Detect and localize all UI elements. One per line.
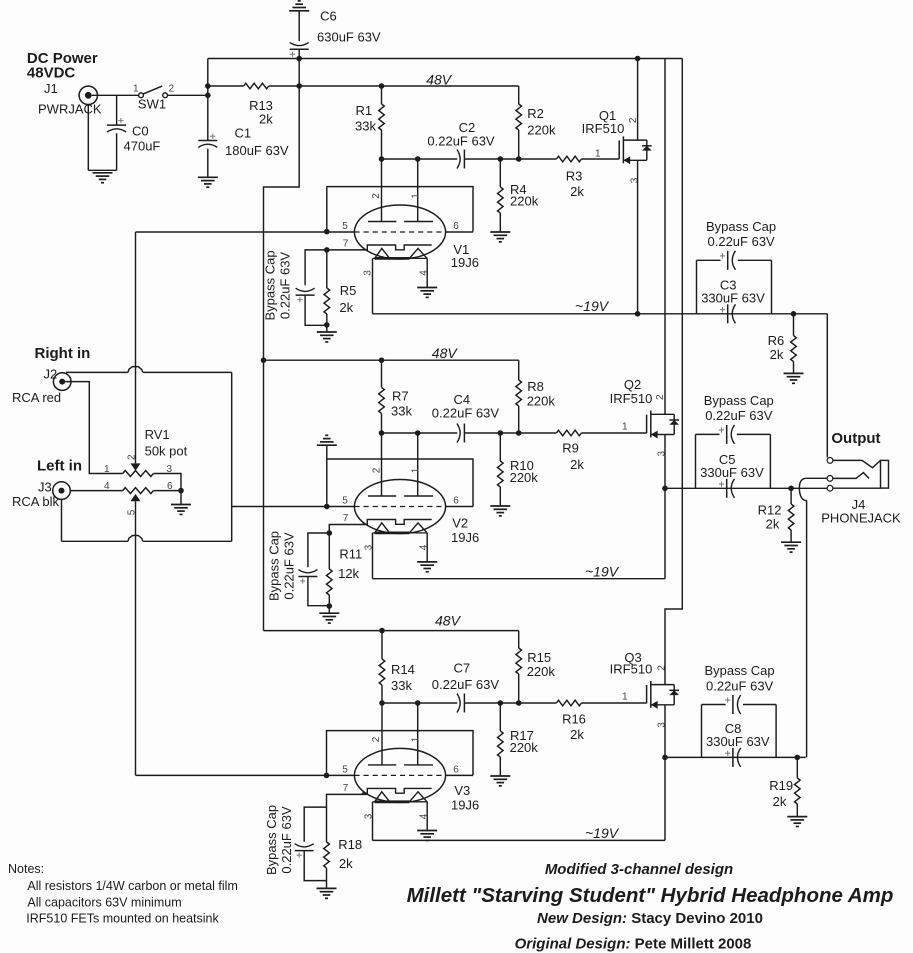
connector J4 ring contact — [827, 476, 833, 482]
ground at R19 — [787, 816, 807, 818]
svg-text:0.22uF 63V: 0.22uF 63V — [279, 806, 294, 874]
svg-text:7: 7 — [343, 783, 349, 794]
svg-text:19J6: 19J6 — [451, 798, 479, 813]
svg-text:C0: C0 — [132, 124, 149, 139]
svg-text:IRF510 FETs mounted on heatsin: IRF510 FETs mounted on heatsink — [26, 912, 219, 926]
svg-text:4: 4 — [104, 481, 110, 492]
capacitor C1 180uF 63V — [198, 140, 217, 142]
svg-text:0.22uF 63V: 0.22uF 63V — [432, 406, 500, 421]
svg-text:0.22uF 63V: 0.22uF 63V — [432, 677, 500, 692]
transistor Q1 channel bar — [622, 136, 624, 163]
resistor R5 2k — [326, 250, 328, 288]
resistor R12 2k — [790, 488, 792, 504]
wire V2 pin7 heater — [329, 525, 367, 534]
wire V2 grid box tying pins 5,6 — [327, 459, 473, 507]
svg-text:2k: 2k — [339, 856, 353, 871]
svg-text:330uF 63V: 330uF 63V — [706, 734, 770, 749]
tube V1 cathode bottom bar — [373, 257, 428, 259]
svg-text:J3: J3 — [38, 480, 52, 495]
svg-text:V2: V2 — [452, 516, 468, 531]
resistor R13 2k — [244, 83, 269, 89]
svg-text:C7: C7 — [454, 661, 471, 676]
wire J1 to SW1 pin1 — [92, 94, 139, 96]
wire V1 grid box tying pins 5,6 — [327, 187, 473, 232]
ground above C6 (inverted) — [289, 10, 309, 12]
svg-text:PWRJACK: PWRJACK — [38, 102, 102, 117]
bypass cap 0.22uF 63V (C5 bank) — [696, 433, 720, 435]
ground at R5 — [317, 331, 337, 333]
capacitor C8 330uF 63V box — [701, 705, 703, 758]
svg-text:33k: 33k — [391, 404, 412, 419]
wire V3 pin4 to ground — [426, 802, 428, 831]
transistor Q2 drain stub — [651, 413, 674, 415]
ground at R18 — [317, 887, 337, 889]
svg-text:3: 3 — [630, 177, 641, 183]
svg-text:1: 1 — [133, 84, 139, 95]
svg-text:~19V: ~19V — [575, 298, 610, 314]
ground at V1 pin4 — [417, 287, 437, 289]
switch SW1 — [139, 93, 144, 98]
wire V1 plate leads pins 2,1 — [381, 159, 383, 222]
svg-text:5: 5 — [342, 221, 348, 232]
svg-text:2k: 2k — [773, 794, 787, 809]
svg-text:R14: R14 — [391, 662, 415, 677]
wire 48V rail (channel 1) — [208, 85, 244, 87]
tube V3 cathode bottom bar — [373, 801, 428, 803]
svg-text:2: 2 — [655, 394, 666, 400]
bypass cap 0.22uF 63V channel 1 — [305, 250, 327, 285]
ground at V2 pin4 — [417, 561, 437, 563]
wire J2 sleeve loop top — [66, 371, 128, 373]
wire 48V bus down to channels 2,3 — [264, 86, 300, 631]
tube V3 grid (dashed) — [354, 774, 445, 776]
tube V2 envelope — [354, 480, 445, 534]
resistor R4 220k — [499, 159, 501, 187]
capacitor C3 330uF 63V box — [696, 260, 698, 314]
wire SW1 pin2 to C1 node — [168, 94, 208, 96]
svg-text:IRF510: IRF510 — [582, 121, 625, 136]
svg-text:470uF: 470uF — [124, 138, 161, 153]
svg-text:R1: R1 — [356, 103, 373, 118]
svg-text:Left in: Left in — [37, 458, 82, 475]
resistor R10 220k — [499, 433, 501, 461]
wire grid node channel 3 — [382, 702, 457, 704]
capacitor C3 330uF 63V — [732, 304, 735, 323]
connector J4 tip contact — [827, 458, 833, 464]
svg-text:RCA blk: RCA blk — [12, 494, 59, 509]
svg-text:R19: R19 — [769, 778, 793, 793]
ground at R11 — [319, 612, 339, 614]
svg-text:IRF510: IRF510 — [610, 662, 653, 677]
transistor Q1 source arrow — [623, 156, 630, 164]
capacitor C4 0.22uF 63V — [457, 424, 460, 443]
svg-text:R5: R5 — [340, 283, 357, 298]
wire Q2 source down — [664, 435, 666, 579]
transistor Q2 source arrow — [651, 431, 658, 439]
svg-text:R15: R15 — [527, 650, 551, 665]
connector J4 sleeve contact — [827, 485, 833, 491]
svg-text:3: 3 — [657, 722, 668, 728]
svg-text:C6: C6 — [320, 9, 337, 24]
wire V1 pin4 to ground — [426, 258, 428, 287]
svg-text:2: 2 — [371, 736, 382, 742]
svg-text:R3: R3 — [566, 169, 583, 184]
svg-text:180uF 63V: 180uF 63V — [225, 143, 289, 158]
tube V1 plates — [368, 221, 396, 223]
wire channel 1 output ~19V line — [372, 259, 374, 314]
svg-text:SW1: SW1 — [138, 97, 166, 112]
wire V2 pin4 to ground — [426, 533, 428, 562]
svg-text:R11: R11 — [339, 547, 362, 562]
potentiometer RV1 upper wiper arrow — [131, 463, 141, 470]
svg-text:R12: R12 — [758, 503, 782, 518]
potentiometer RV1 lower section — [123, 488, 154, 494]
tube V3 heater bar — [362, 788, 432, 793]
wire R13 to R2 corner — [269, 85, 519, 87]
svg-text:R16: R16 — [562, 712, 586, 727]
svg-text:J2: J2 — [44, 367, 58, 382]
svg-text:7: 7 — [343, 513, 349, 524]
resistor R16 2k — [556, 700, 581, 706]
svg-text:220k: 220k — [527, 123, 556, 138]
wire C7 to R16 — [464, 702, 556, 704]
ground at J1/C0 — [93, 172, 113, 174]
wire 48V rail channel 2 — [264, 359, 519, 361]
wire V2 pin5 from jack sleeve loop — [232, 506, 355, 508]
wire Q2 drain up to top rail — [664, 59, 666, 415]
wire pot pins 3,6 to ground — [153, 474, 181, 491]
tube V2 plates — [368, 495, 396, 497]
svg-text:6: 6 — [453, 496, 459, 507]
svg-text:2k: 2k — [339, 300, 353, 315]
wire V1 pin5 input from pot wiper — [136, 231, 355, 233]
ground above V2 grid box — [317, 444, 337, 446]
svg-text:330uF 63V: 330uF 63V — [700, 465, 764, 480]
svg-text:Modified 3-channel design: Modified 3-channel design — [545, 861, 733, 878]
svg-text:RCA red: RCA red — [12, 390, 61, 405]
svg-text:0.22uF 63V: 0.22uF 63V — [708, 234, 776, 249]
svg-text:0.22uF 63V: 0.22uF 63V — [705, 408, 773, 423]
potentiometer RV1 50k upper section — [123, 471, 154, 477]
wire channel 2 ~19V line — [372, 533, 374, 579]
svg-text:Notes:: Notes: — [8, 862, 44, 876]
svg-text:12k: 12k — [338, 566, 359, 581]
svg-text:Bypass Cap: Bypass Cap — [263, 250, 278, 320]
svg-text:220k: 220k — [510, 470, 539, 485]
svg-text:4: 4 — [419, 544, 430, 550]
tube V1 heater bar — [362, 245, 432, 250]
tube V1 grid (dashed) — [354, 231, 445, 233]
transistor Q1 gate bar — [618, 140, 620, 158]
resistor R6 2k — [793, 314, 795, 336]
svg-text:5: 5 — [342, 496, 348, 507]
tube V3 plates — [368, 764, 396, 766]
svg-text:1: 1 — [622, 692, 628, 703]
tube V2 heater bar — [362, 520, 432, 525]
svg-text:1: 1 — [595, 149, 601, 160]
svg-text:220k: 220k — [510, 194, 539, 209]
svg-text:1: 1 — [411, 467, 422, 473]
transistor Q3 source arrow — [651, 701, 658, 709]
wire top 48V rail to MOSFET drains — [208, 58, 683, 60]
svg-text:48V: 48V — [432, 345, 459, 361]
bypass cap 0.22uF 63V channel 2 — [308, 533, 329, 567]
svg-text:2k: 2k — [570, 727, 584, 742]
ground at R12 — [781, 541, 801, 543]
wire J3 tip to pot pin4 — [70, 490, 122, 492]
svg-text:7: 7 — [343, 239, 349, 250]
wire pot wiper up to V1 — [135, 232, 137, 463]
resistor R8 220k — [518, 360, 520, 380]
svg-text:0.22uF 63V: 0.22uF 63V — [427, 133, 495, 148]
wire J1 ground return — [87, 105, 89, 171]
svg-text:19J6: 19J6 — [451, 255, 479, 270]
svg-text:33k: 33k — [355, 119, 376, 134]
svg-text:IRF510: IRF510 — [610, 391, 653, 406]
connector J4 plug body — [881, 460, 889, 488]
svg-text:2: 2 — [169, 84, 175, 95]
node 48V input vertical at C1 — [207, 59, 209, 141]
wire Q3 source down — [664, 705, 666, 841]
resistor R7 33k — [381, 360, 383, 387]
ground at R17 — [490, 775, 510, 777]
tube V2 cathode bottom bar — [373, 532, 428, 534]
transistor Q3 gate bar — [646, 685, 648, 703]
wire V3 pin7 heater — [327, 794, 368, 842]
svg-text:6: 6 — [453, 765, 459, 776]
svg-text:330uF 63V: 330uF 63V — [701, 290, 765, 305]
svg-text:3: 3 — [657, 450, 668, 456]
resistor R1 33k — [381, 86, 383, 104]
capacitor C5 330uF 63V box — [695, 434, 697, 488]
svg-text:630uF 63V: 630uF 63V — [317, 30, 381, 45]
ground at R10 — [490, 505, 510, 507]
tube V1 envelope — [354, 205, 445, 259]
wire channel 2 output line to jack sleeve — [665, 487, 828, 489]
svg-text:Bypass Cap: Bypass Cap — [706, 219, 776, 234]
transistor Q3 body diode — [673, 685, 675, 705]
wire Q1 drain to top rail — [637, 59, 639, 141]
svg-text:48VDC: 48VDC — [27, 65, 76, 82]
resistor R19 2k — [796, 757, 798, 778]
transistor Q3 source stub — [651, 704, 674, 706]
svg-text:RV1: RV1 — [145, 427, 170, 442]
wire C2 to R3 — [464, 158, 556, 160]
connector J1 PWRJACK — [79, 86, 97, 104]
svg-text:All resistors 1/4W carbon or m: All resistors 1/4W carbon or metal film — [27, 879, 237, 893]
svg-text:Right in: Right in — [35, 345, 91, 362]
wire channel 1 output to J4 tip — [826, 314, 828, 458]
svg-text:0.22uF 63V: 0.22uF 63V — [706, 678, 774, 693]
svg-text:Original Design: Pete Millett: Original Design: Pete Millett 2008 — [515, 936, 752, 953]
svg-text:Bypass Cap: Bypass Cap — [264, 805, 279, 875]
svg-text:R18: R18 — [338, 837, 362, 852]
svg-text:R7: R7 — [392, 389, 409, 404]
connector J3 RCA blk — [53, 482, 71, 500]
wire sleeve loop right side — [231, 372, 233, 541]
capacitor C5 330uF 63V — [731, 479, 734, 498]
tube V3 cathode triangles — [375, 792, 390, 802]
svg-text:50k pot: 50k pot — [145, 444, 188, 459]
wire V3 pin5 from pot lower wiper — [136, 774, 355, 776]
resistor R2 220k — [518, 86, 520, 104]
wire J2 tip to pot pin1 — [65, 382, 123, 474]
svg-text:Bypass Cap: Bypass Cap — [704, 393, 774, 408]
svg-text:4: 4 — [419, 813, 430, 819]
ground at pot — [171, 504, 191, 506]
svg-text:1: 1 — [410, 193, 421, 199]
tube V2 grid (dashed) — [354, 506, 445, 508]
capacitor C8 330uF 63V — [737, 748, 740, 767]
transistor Q2 source stub — [651, 434, 674, 436]
bypass cap 0.22uF 63V (C8 bank) — [702, 704, 726, 706]
ground at C1 — [198, 176, 218, 178]
svg-text:Q2: Q2 — [624, 377, 641, 392]
transistor Q3 drain stub — [651, 684, 674, 686]
connector J4 tip spring and plug — [833, 460, 881, 467]
transistor Q2 channel bar — [650, 411, 652, 438]
tube V2 cathode triangles — [375, 523, 390, 533]
connector J4 ring spring — [833, 473, 869, 479]
svg-text:0.22uF 63V: 0.22uF 63V — [278, 252, 293, 320]
wire channel 3 output line — [665, 756, 806, 758]
wire V2 plate leads pins 2,1 — [381, 433, 383, 496]
wire V1 pin7 heater — [327, 249, 368, 251]
bypass cap 0.22uF 63V channel 3 — [304, 807, 326, 842]
svg-text:All capacitors 63V minimum: All capacitors 63V minimum — [27, 896, 181, 910]
svg-text:R9: R9 — [562, 441, 579, 456]
wire J3 sleeve loop bottom — [61, 499, 63, 541]
potentiometer RV1 lower wiper arrow — [131, 494, 141, 501]
svg-text:~19V: ~19V — [585, 825, 620, 841]
capacitor C2 0.22uF 63V — [457, 150, 460, 169]
resistor R15 220k — [518, 631, 520, 648]
wire grid node channel 1 — [382, 158, 458, 160]
svg-text:48V: 48V — [426, 72, 453, 88]
wire C4 to R9 — [464, 432, 556, 434]
svg-text:J1: J1 — [44, 81, 58, 96]
svg-text:R8: R8 — [527, 379, 544, 394]
svg-text:Output: Output — [831, 430, 880, 447]
svg-text:220k: 220k — [510, 740, 539, 755]
ground at R4 — [490, 231, 510, 233]
ground at V3 pin4 — [417, 830, 437, 832]
wire V3 plate leads pins 2,1 — [381, 703, 383, 765]
svg-text:2: 2 — [657, 665, 668, 671]
svg-text:5: 5 — [342, 765, 348, 776]
wire 48V from top rail down to Q3 drain — [665, 59, 682, 685]
svg-text:220k: 220k — [527, 664, 556, 679]
transistor Q1 source stub — [623, 159, 646, 161]
svg-text:1: 1 — [410, 736, 421, 742]
ground at R6 — [784, 372, 804, 374]
transistor Q2 body diode — [673, 414, 675, 434]
bypass cap 0.22uF 63V (C3 bank) — [697, 259, 721, 261]
svg-text:0.22uF 63V: 0.22uF 63V — [282, 532, 297, 600]
svg-text:Millett "Starving Student" Hyb: Millett "Starving Student" Hybrid Headph… — [407, 884, 894, 907]
wire Q1 source down to output node — [637, 160, 639, 313]
resistor R9 2k — [556, 430, 581, 436]
svg-text:2: 2 — [372, 467, 383, 473]
svg-text:C1: C1 — [235, 126, 252, 141]
capacitor C7 0.22uF 63V — [457, 694, 460, 713]
tube V1 cathode triangles — [375, 248, 390, 258]
svg-text:2: 2 — [371, 193, 382, 199]
svg-text:2k: 2k — [259, 112, 273, 127]
svg-text:Bypass Cap: Bypass Cap — [266, 531, 281, 601]
wire V3 grid box tying pins 5,6 — [327, 731, 474, 776]
transistor Q2 gate bar — [646, 415, 648, 433]
wire channel 3 ~19V line — [372, 802, 374, 841]
wire J4 sleeve to plug — [833, 487, 881, 489]
svg-text:PHONEJACK: PHONEJACK — [821, 511, 901, 526]
wire channel 3 to J4 ring with hop over sleeve wire — [805, 477, 827, 479]
resistor R17 220k — [499, 703, 501, 731]
transistor Q1 body diode — [646, 140, 648, 160]
svg-text:2k: 2k — [570, 457, 584, 472]
svg-text:19J6: 19J6 — [451, 530, 479, 545]
transistor Q1 drain stub — [623, 139, 646, 141]
capacitor C6 630uF 63V — [298, 11, 300, 41]
wire 48V rail channel 3 — [264, 630, 519, 632]
wire grid node channel 2 — [382, 432, 458, 434]
transistor Q3 channel bar — [650, 681, 652, 708]
svg-text:R2: R2 — [527, 106, 544, 121]
tube V3 envelope — [354, 748, 445, 802]
svg-text:2k: 2k — [570, 184, 584, 199]
svg-text:4: 4 — [419, 270, 430, 276]
svg-text:R6: R6 — [768, 333, 785, 348]
svg-text:1: 1 — [104, 464, 110, 475]
svg-text:Bypass Cap: Bypass Cap — [705, 663, 775, 678]
svg-text:2k: 2k — [766, 517, 780, 532]
resistor R11 12k — [328, 533, 330, 569]
resistor R14 33k — [381, 631, 383, 659]
resistor R3 2k — [556, 156, 581, 162]
svg-text:2k: 2k — [770, 347, 784, 362]
svg-text:33k: 33k — [391, 678, 412, 693]
svg-text:New Design: Stacy Devino 2010: New Design: Stacy Devino 2010 — [537, 910, 763, 927]
svg-text:6: 6 — [453, 221, 459, 232]
connector J2 RCA red — [53, 373, 71, 391]
svg-text:48V: 48V — [435, 613, 462, 629]
capacitor C0 470uF — [116, 95, 118, 125]
svg-text:1: 1 — [622, 422, 628, 433]
svg-text:V3: V3 — [454, 783, 470, 798]
svg-text:~19V: ~19V — [585, 564, 620, 580]
svg-text:220k: 220k — [527, 394, 556, 409]
resistor R18 2k — [324, 842, 330, 868]
wire pot lower wiper down to V3 — [135, 501, 137, 775]
